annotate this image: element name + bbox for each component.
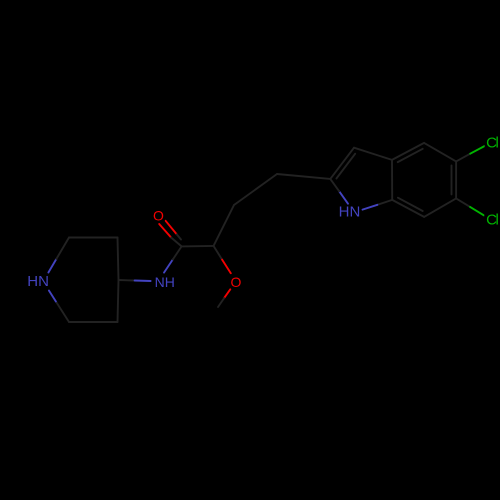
piperidine bond C3-C4 bbox=[118, 238, 119, 281]
chain bond CH2 - indole C2 bbox=[277, 174, 330, 179]
carbonyl double bond C=O (red) bbox=[159, 224, 171, 238]
svg-text:HN: HN bbox=[27, 273, 49, 290]
indole double bond C2=C3 bbox=[330, 148, 354, 179]
piperidine bond C2-C3 bbox=[69, 237, 118, 239]
chain bond CH2-CH2 bbox=[234, 174, 277, 205]
chlorine Cl label (top) bbox=[485, 135, 499, 149]
bond C6-Cl (half green) bbox=[456, 198, 470, 207]
benzo bond C6-C7 bbox=[424, 198, 456, 217]
piperidine bond C4-C5 bbox=[118, 280, 119, 322]
benzo double bond C7=C7a bbox=[392, 200, 424, 217]
svg-text:Cl: Cl bbox=[486, 134, 498, 151]
indole HN label bbox=[337, 205, 361, 219]
bond alpha C - methoxy O (half red) bbox=[214, 246, 223, 260]
piperidine HN label bbox=[25, 275, 50, 289]
amide NH label bbox=[153, 275, 176, 288]
benzo double bond C3a=C4 bbox=[392, 143, 424, 160]
indole bond C7a-N1 (half blue) bbox=[377, 200, 392, 205]
methoxy O label bbox=[230, 274, 243, 288]
svg-text:Cl: Cl bbox=[486, 212, 498, 229]
svg-text:O: O bbox=[230, 274, 241, 290]
indole bond C3-C3a bbox=[354, 148, 392, 160]
chain bond alpha C - CH2 bbox=[214, 205, 235, 246]
piperidine bond C5-C6 bbox=[69, 321, 118, 323]
indole fusion bond C3a-C7a bbox=[391, 160, 393, 200]
benzo bond C4-C5 bbox=[424, 143, 456, 162]
bond carbonyl C - alpha C bbox=[182, 245, 214, 248]
bond piperidine C4 - amide N (half blue) bbox=[119, 279, 135, 282]
svg-text:HN: HN bbox=[339, 203, 361, 220]
svg-text:O: O bbox=[153, 207, 164, 223]
bond amide N - carbonyl C (half blue) bbox=[164, 260, 173, 273]
benzo double bond C5=C6 bbox=[455, 161, 457, 198]
piperidine bond C6-N1 (half blue) bbox=[56, 302, 69, 323]
piperidine bond N1-C2 (half blue) bbox=[48, 259, 56, 273]
chlorine Cl label (bottom) bbox=[484, 213, 498, 227]
carbonyl O label bbox=[151, 208, 164, 221]
bond C5-Cl (half green) bbox=[456, 154, 470, 162]
svg-text:NH: NH bbox=[155, 274, 175, 290]
bond methoxy O - CH3 (half red) bbox=[224, 289, 230, 298]
indole bond N1-C2 (half blue) bbox=[339, 191, 348, 203]
